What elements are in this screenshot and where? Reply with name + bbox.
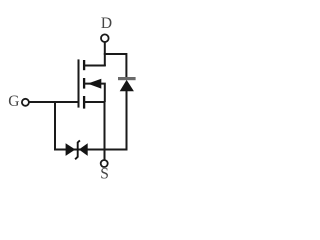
diode D1 cathode bar <box>118 77 136 80</box>
wire D vertical to drain <box>104 42 106 66</box>
transistor Q1 drain stub <box>84 65 106 67</box>
wire body diode cathode vertical <box>125 53 127 78</box>
svg-text:G: G <box>8 93 19 110</box>
zener shared cathode bar <box>75 140 80 159</box>
svg-text:S: S <box>100 166 109 183</box>
terminal S circle <box>101 160 108 167</box>
transistor Q1 channel bar drain <box>83 60 85 70</box>
wire G horizontal <box>30 101 80 103</box>
transistor Q1 gate line <box>78 59 80 107</box>
transistor Q1 body stub wire <box>84 84 105 102</box>
wire body diode anode vertical <box>126 91 128 151</box>
wire S vertical <box>104 101 106 160</box>
terminal D circle <box>101 34 109 42</box>
wire branch to body diode <box>104 53 127 55</box>
zener Z1 left triangle <box>66 143 76 156</box>
transistor Q1 source stub <box>84 101 105 103</box>
transistor Q1 body arrow <box>88 79 102 89</box>
terminal G circle <box>22 99 29 106</box>
wire bottom source net <box>55 149 127 151</box>
transistor Q1 channel bar body <box>83 78 85 89</box>
svg-text:D: D <box>101 15 112 32</box>
zener Z2 right triangle <box>79 143 88 156</box>
diode D1 anode triangle <box>120 80 134 91</box>
wire zener branch vertical <box>54 102 56 151</box>
transistor Q1 channel bar source <box>83 96 85 109</box>
